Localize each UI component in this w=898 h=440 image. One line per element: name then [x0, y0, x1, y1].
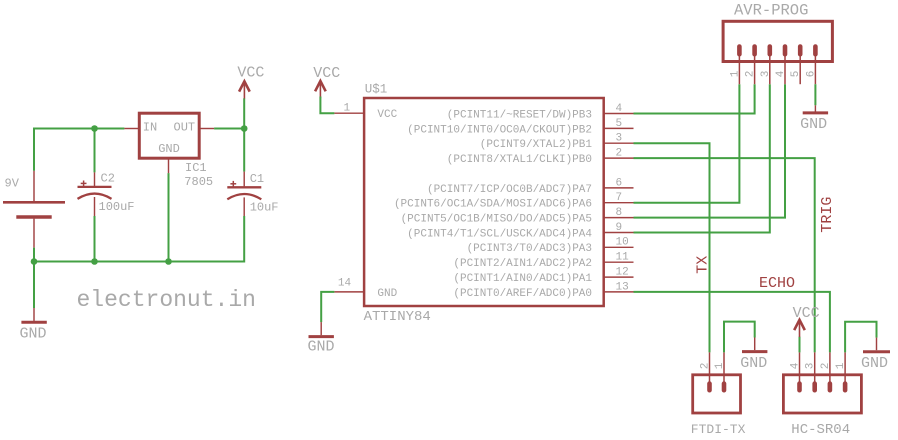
IC1 pin label IN: [143, 121, 157, 135]
svg-text:10uF: 10uF: [250, 200, 279, 214]
HC-SR04 pin 1 blade: [844, 352, 846, 390]
ATTINY84 pin 8 stub (PA5): [604, 217, 634, 219]
svg-text:(PCINT10/INT0/OC0A/CKOUT)PB2: (PCINT10/INT0/OC0A/CKOUT)PB2: [407, 124, 592, 136]
capacitor C1 value label 10uF: [250, 200, 279, 214]
wire HC-SR04 pin 4 to VCC: [799, 337, 801, 353]
ground label GND (FTDI-TX): [740, 355, 767, 372]
svg-text:GND: GND: [20, 326, 47, 343]
net label TX: [695, 256, 712, 274]
svg-text:GND: GND: [377, 288, 397, 300]
svg-text:GND: GND: [740, 355, 767, 372]
svg-text:14: 14: [338, 278, 352, 290]
pin number 14: [338, 278, 352, 290]
VCC symbol (ATTINY84 pin 1): [315, 81, 326, 98]
ATTINY84 pin 11 stub (PA2): [604, 261, 634, 263]
pin number 11: [616, 252, 630, 264]
wire net ECHO: PA0 to HC-SR04 pin 2: [634, 292, 830, 353]
svg-text:5: 5: [790, 71, 802, 78]
svg-text:9: 9: [616, 222, 623, 234]
VCC symbol (regulator output): [239, 81, 250, 98]
wire battery+ to 7805 IN (VCC rail): [34, 129, 124, 171]
ground symbol (ATTINY84): [309, 322, 334, 337]
svg-text:(PCINT9/XTAL2)PB1: (PCINT9/XTAL2)PB1: [480, 139, 593, 151]
svg-text:GND: GND: [800, 116, 827, 133]
svg-text:TX: TX: [695, 256, 712, 274]
IC1 name label: [185, 161, 207, 175]
ground label GND (AVR-PROG): [800, 116, 827, 133]
ground label GND (ATTINY84): [308, 339, 335, 356]
pin label PB2 (inside U$1): [407, 124, 592, 136]
pin label PA1 (inside U$1): [453, 273, 592, 285]
IC1 IN pin stub: [124, 128, 139, 130]
wire net SCK: PA4 to AVR-PROG pin 3: [634, 84, 770, 232]
svg-text:IN: IN: [143, 121, 157, 135]
connector AVR-PROG box: [723, 21, 832, 61]
IC1 pin label GND: [158, 142, 180, 156]
svg-text:HC-SR04: HC-SR04: [791, 422, 850, 438]
svg-text:4: 4: [775, 70, 787, 77]
svg-text:C1: C1: [250, 172, 264, 186]
svg-text:2: 2: [700, 363, 712, 370]
ground symbol (AVR-PROG): [803, 105, 828, 113]
wire VCC node up to VCC symbol: [243, 98, 245, 128]
svg-text:2: 2: [745, 71, 757, 78]
wire net MISO: PA5 to AVR-PROG pin 4: [634, 84, 786, 217]
wire pin 14 to ground: [321, 292, 334, 322]
FTDI-TX pin number 1: [714, 362, 726, 369]
pin label PA4 (inside U$1): [407, 228, 592, 240]
connector HC-SR04 name label: [791, 422, 850, 438]
wire GND symbol drop: [33, 262, 35, 309]
svg-text:4: 4: [616, 103, 623, 115]
svg-text:VCC: VCC: [377, 109, 397, 121]
pin number 10: [616, 237, 629, 249]
pin label PA0 (inside U$1): [453, 288, 592, 300]
junction bottom rail / IC1 GND: [165, 258, 172, 265]
svg-text:9V: 9V: [5, 177, 20, 191]
ground symbol (battery): [21, 308, 46, 322]
ATTINY84 pin 10 stub (PA3): [604, 246, 634, 248]
pin number 8: [616, 207, 623, 219]
connector FTDI-TX box: [693, 375, 741, 413]
ground symbol (HC-SR04): [863, 338, 890, 352]
wire VCC to pin 1: [320, 97, 334, 114]
wire C2 bottom to rail: [94, 216, 96, 262]
FTDI-TX pin 1 blade: [723, 352, 725, 390]
svg-text:11: 11: [616, 252, 630, 264]
svg-text:GND: GND: [861, 355, 888, 372]
pin number 5: [616, 118, 623, 130]
svg-text:ATTINY84: ATTINY84: [364, 309, 431, 325]
svg-text:TRIG: TRIG: [819, 197, 836, 233]
AVR-PROG pin number 5: [790, 71, 802, 78]
IC U$1 ATTINY84 box: [364, 98, 604, 306]
wire C2 top drop: [94, 129, 96, 173]
svg-text:6: 6: [805, 71, 817, 78]
svg-text:ECHO: ECHO: [759, 275, 795, 292]
connector FTDI-TX name label: [691, 422, 746, 437]
wire net MOSI: PA6 to AVR-PROG pin 1: [634, 84, 740, 203]
svg-text:(PCINT6/OC1A/SDA/MOSI/ADC6)PA6: (PCINT6/OC1A/SDA/MOSI/ADC6)PA6: [394, 199, 592, 211]
ATTINY84 pin 12 stub (PA1): [604, 276, 634, 278]
svg-text:3: 3: [616, 133, 623, 145]
svg-text:100uF: 100uF: [99, 200, 135, 214]
pin number 9: [616, 222, 623, 234]
U$1 name label: [365, 83, 388, 97]
svg-text:1: 1: [344, 102, 351, 114]
wire net TX: PB1 to FTDI-TX pin 2: [634, 143, 710, 352]
junction bottom rail / C2: [91, 258, 98, 265]
pin number 4: [616, 103, 623, 115]
HC-SR04 pin 2 blade: [829, 352, 831, 390]
ATTINY84 pin 14 stub: [334, 291, 364, 293]
AVR-PROG pin 3 blade: [769, 45, 771, 84]
HC-SR04 pin number 2: [820, 363, 832, 370]
pin number 1: [344, 102, 351, 114]
AVR-PROG pin 4 blade: [784, 45, 786, 84]
svg-text:3: 3: [760, 71, 772, 78]
svg-text:8: 8: [616, 207, 623, 219]
ground symbol (FTDI-TX): [742, 338, 767, 352]
regulator IC1 7805 box: [139, 113, 199, 158]
HC-SR04 pin number 1: [835, 362, 847, 369]
pin label GND (inside U$1): [377, 288, 397, 300]
AVR-PROG pin number 3: [760, 71, 772, 78]
AVR-PROG pin number 4: [775, 70, 787, 77]
svg-text:2: 2: [616, 148, 623, 160]
pin number 7: [616, 192, 623, 204]
wire IC1 GND to rail: [168, 173, 170, 261]
ATTINY84 pin 9 stub (PA4): [604, 232, 634, 234]
pin label PA6 (inside U$1): [394, 199, 592, 211]
ATTINY84 pin 4 stub (PB3): [604, 113, 634, 115]
IC1 value label 7805: [184, 175, 213, 189]
svg-text:1: 1: [835, 362, 847, 369]
svg-text:10: 10: [616, 237, 629, 249]
junction top rail / C2: [91, 125, 98, 132]
HC-SR04 pin number 4: [790, 362, 802, 369]
svg-text:(PCINT8/XTAL1/CLKI)PB0: (PCINT8/XTAL1/CLKI)PB0: [447, 154, 592, 166]
connector AVR-PROG name label: [734, 2, 808, 20]
ATTINY84 pin 2 stub (PB0): [604, 157, 634, 159]
svg-text:2: 2: [820, 363, 832, 370]
svg-text:5: 5: [616, 118, 623, 130]
IC1 pin label OUT: [174, 121, 196, 135]
pin label PA5 (inside U$1): [401, 214, 592, 226]
pin label PA7 (inside U$1): [427, 184, 592, 196]
pin number 13: [616, 281, 629, 293]
svg-text:(PCINT3/T0/ADC3)PA3: (PCINT3/T0/ADC3)PA3: [467, 243, 592, 255]
svg-text:(PCINT2/AIN1/ADC2)PA2: (PCINT2/AIN1/ADC2)PA2: [453, 258, 592, 270]
ATTINY84 pin 3 stub (PB1): [604, 142, 634, 144]
HC-SR04 pin 4 blade: [799, 352, 801, 390]
net label ECHO: [759, 275, 795, 292]
svg-text:13: 13: [616, 281, 629, 293]
net label TRIG: [819, 197, 836, 233]
pin label PA3 (inside U$1): [467, 243, 592, 255]
pin label PB1 (inside U$1): [480, 139, 593, 151]
svg-text:(PCINT4/T1/SCL/USCK/ADC4)PA4: (PCINT4/T1/SCL/USCK/ADC4)PA4: [407, 228, 592, 240]
pin number 12: [616, 267, 629, 279]
ATTINY84 pin 1 stub: [334, 112, 364, 114]
capacitor C1 name label: [250, 172, 264, 186]
connector HC-SR04 box: [783, 375, 861, 413]
capacitor C2 name label: [101, 172, 115, 186]
wire net RESET: PB3 to AVR-PROG pin 2: [634, 84, 755, 113]
AVR-PROG pin 6 blade: [814, 45, 816, 84]
VCC symbol (HC-SR04): [794, 320, 805, 337]
pin number 6: [616, 177, 623, 189]
junction VCC node: [241, 125, 248, 132]
VCC label (HC-SR04): [793, 305, 820, 322]
svg-text:(PCINT1/AIN0/ADC1)PA1: (PCINT1/AIN0/ADC1)PA1: [453, 273, 592, 285]
pin label PA2 (inside U$1): [453, 258, 592, 270]
wire 7805 OUT to VCC node: [214, 128, 244, 130]
svg-text:7805: 7805: [184, 175, 213, 189]
battery B1 value label 9V: [5, 177, 20, 191]
capacitor C2: [78, 172, 112, 216]
pin number 3: [616, 133, 623, 145]
wire GND bottom rail: [34, 216, 244, 262]
ground label GND (battery): [20, 326, 47, 343]
pin label VCC (inside U$1): [377, 109, 397, 121]
svg-text:electronut.in: electronut.in: [77, 287, 256, 313]
AVR-PROG pin number 6: [805, 71, 817, 78]
svg-text:12: 12: [616, 267, 629, 279]
svg-text:VCC: VCC: [313, 65, 340, 82]
pin label PB0 (inside U$1): [447, 154, 592, 166]
AVR-PROG pin 1 blade: [738, 45, 740, 84]
IC1 GND pin stub: [168, 158, 170, 173]
ATTINY84 value label: [364, 309, 431, 325]
svg-text:OUT: OUT: [174, 121, 196, 135]
text electronut.in: [77, 287, 256, 313]
AVR-PROG pin 5 blade: [799, 45, 801, 84]
battery B1 9V: [3, 171, 65, 248]
ground label GND (HC-SR04): [861, 355, 888, 372]
capacitor C2 value label 100uF: [99, 200, 135, 214]
AVR-PROG pin number 1: [729, 70, 741, 77]
junction bottom rail / battery-: [31, 258, 38, 265]
ATTINY84 pin 6 stub (PA7): [604, 187, 634, 189]
svg-text:VCC: VCC: [793, 305, 820, 322]
AVR-PROG pin 2 blade: [754, 45, 756, 84]
svg-text:7: 7: [616, 192, 623, 204]
wire VCC node down to C1: [243, 129, 245, 172]
ATTINY84 pin 13 stub (PA0): [604, 291, 634, 293]
svg-text:(PCINT5/OC1B/MISO/DO/ADC5)PA5: (PCINT5/OC1B/MISO/DO/ADC5)PA5: [401, 214, 592, 226]
svg-text:AVR-PROG: AVR-PROG: [734, 2, 808, 20]
svg-text:6: 6: [616, 177, 623, 189]
svg-text:(PCINT0/AREF/ADC0)PA0: (PCINT0/AREF/ADC0)PA0: [453, 288, 592, 300]
svg-text:(PCINT7/ICP/OC0B/ADC7)PA7: (PCINT7/ICP/OC0B/ADC7)PA7: [427, 184, 592, 196]
AVR-PROG pin number 2: [745, 71, 757, 78]
ATTINY84 pin 5 stub (PB2): [604, 127, 634, 129]
svg-text:GND: GND: [158, 142, 180, 156]
wire FTDI-TX pin 1 to ground: [724, 322, 755, 353]
HC-SR04 pin number 3: [805, 363, 817, 370]
svg-text:(PCINT11/~RESET/DW)PB3: (PCINT11/~RESET/DW)PB3: [447, 109, 592, 121]
wire AVR-PROG pin 6 to ground: [814, 84, 816, 105]
svg-text:FTDI-TX: FTDI-TX: [691, 422, 746, 437]
svg-text:U$1: U$1: [365, 83, 388, 97]
VCC label (ATTINY84 pin 1): [313, 65, 340, 82]
pin number 2: [616, 148, 623, 160]
FTDI-TX pin number 2: [700, 363, 712, 370]
IC1 OUT pin stub: [199, 128, 214, 130]
wire HC-SR04 pin 1 to ground: [845, 322, 876, 353]
svg-text:VCC: VCC: [237, 64, 264, 81]
svg-text:3: 3: [805, 363, 817, 370]
svg-text:1: 1: [714, 362, 726, 369]
wire net TRIG: PB0 to HC-SR04 pin 3: [634, 158, 815, 352]
svg-text:IC1: IC1: [185, 161, 207, 175]
svg-text:4: 4: [790, 362, 802, 369]
pin label PB3 (inside U$1): [447, 109, 592, 121]
svg-text:C2: C2: [101, 172, 115, 186]
VCC label (regulator output): [237, 64, 264, 81]
ATTINY84 pin 7 stub (PA6): [604, 202, 634, 204]
capacitor C1: [227, 172, 261, 216]
FTDI-TX pin 2 blade: [709, 352, 711, 390]
HC-SR04 pin 3 blade: [814, 352, 816, 390]
svg-text:1: 1: [729, 70, 741, 77]
svg-text:GND: GND: [308, 339, 335, 356]
